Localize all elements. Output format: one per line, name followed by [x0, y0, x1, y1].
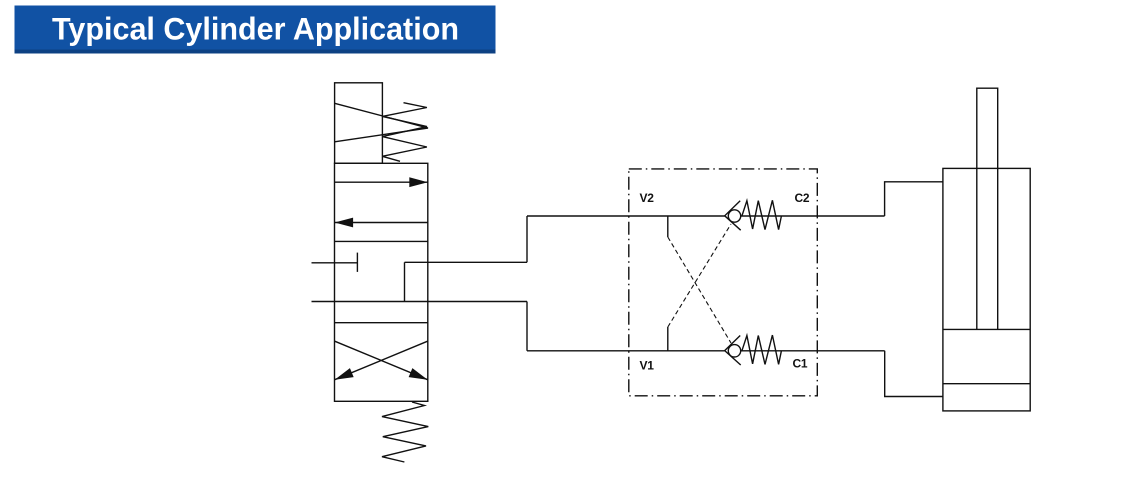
- svg-text:V2: V2: [640, 191, 655, 205]
- svg-text:C2: C2: [795, 191, 810, 205]
- svg-text:Typical Cylinder Application: Typical Cylinder Application: [52, 10, 459, 46]
- svg-text:C1: C1: [793, 357, 808, 371]
- svg-text:V1: V1: [640, 359, 655, 373]
